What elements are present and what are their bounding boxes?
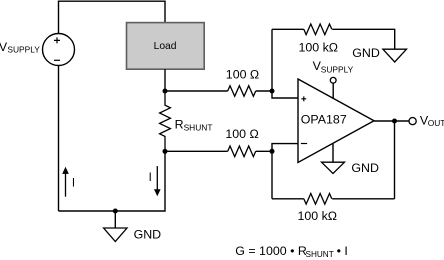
plus sign in source	[54, 37, 60, 43]
opamp plus sign	[301, 96, 306, 101]
svg-text:Load: Load	[154, 41, 177, 52]
wire bottom rail	[59, 151, 166, 211]
wire R2 to node	[256, 150, 272, 152]
supply pin circle	[330, 77, 336, 83]
wire node down to feedback	[271, 151, 273, 199]
node junction bottom of R_SHUNT	[163, 149, 168, 154]
svg-text:GND: GND	[352, 46, 380, 60]
svg-text:100 kΩ: 100 kΩ	[299, 40, 339, 54]
wire R1 to node	[256, 90, 272, 92]
svg-text:R: R	[175, 117, 184, 131]
load box	[127, 23, 205, 70]
wire top feedback right to gnd	[332, 29, 395, 49]
node junction inverting	[270, 149, 275, 154]
current arrow down right	[156, 166, 158, 190]
node main ground junction	[113, 209, 118, 214]
wire left vertical	[58, 66, 60, 212]
op-amp U1 OPA187	[298, 79, 374, 163]
wire top feedback left	[272, 28, 304, 30]
svg-text:GND: GND	[134, 227, 162, 241]
resistor R_SHUNT	[160, 91, 171, 151]
svg-text:100 Ω: 100 Ω	[226, 68, 259, 82]
svg-text:100 Ω: 100 Ω	[225, 127, 258, 141]
wire bottom feedback left	[272, 198, 304, 200]
wire feedback right vertical	[394, 121, 396, 199]
resistor R4 100k bottom	[304, 194, 332, 205]
svg-text:G = 1000 • R: G = 1000 • R	[235, 244, 307, 258]
svg-text:OUT: OUT	[428, 118, 444, 128]
node junction noninverting	[270, 89, 275, 94]
wire top rail	[59, 1, 166, 33]
voltage source V_SUPPLY	[43, 34, 75, 66]
terminal V_OUT circle	[409, 118, 416, 125]
resistor R3 100k top	[304, 24, 332, 35]
svg-text:I: I	[149, 172, 152, 184]
wire to R1	[165, 90, 228, 92]
svg-text:SUPPLY: SUPPLY	[7, 45, 40, 55]
svg-text:SHUNT: SHUNT	[306, 250, 334, 259]
resistor R2 100ohm bottom	[228, 146, 256, 157]
svg-text:GND: GND	[351, 161, 379, 175]
current arrow up left	[65, 173, 67, 197]
svg-text:SHUNT: SHUNT	[184, 122, 213, 132]
resistor R1 100ohm top	[228, 86, 256, 97]
ground opamp	[322, 162, 345, 173]
wire node to -input	[272, 144, 299, 152]
node output junction	[392, 119, 397, 124]
wire node to +input	[272, 29, 299, 98]
svg-text:• I: • I	[337, 244, 348, 258]
wire bottom feedback right	[332, 198, 394, 200]
wire ground stem	[114, 211, 116, 228]
ground main	[104, 228, 127, 242]
wire load bottom	[164, 69, 166, 91]
svg-text:100 kΩ: 100 kΩ	[298, 209, 338, 223]
node junction top of R_SHUNT	[163, 89, 168, 94]
wire gnd pin stem	[332, 143, 334, 162]
minus sign in source	[54, 59, 60, 61]
svg-text:SUPPLY: SUPPLY	[321, 64, 354, 74]
wire to R2	[165, 150, 228, 152]
ground top right	[383, 49, 407, 62]
opamp minus sign	[301, 143, 307, 145]
svg-text:OPA187: OPA187	[301, 113, 347, 127]
wire supply pin stem	[332, 83, 334, 98]
wire output	[374, 120, 409, 122]
svg-text:I: I	[72, 177, 75, 189]
